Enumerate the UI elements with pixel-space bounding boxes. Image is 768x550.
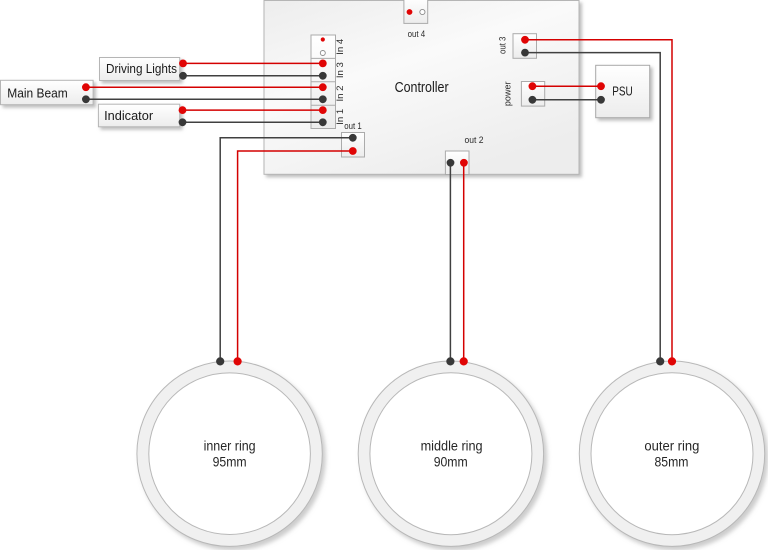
svg-text:85mm: 85mm bbox=[655, 454, 689, 469]
svg-text:90mm: 90mm bbox=[434, 454, 468, 469]
svg-text:In 1: In 1 bbox=[335, 109, 345, 125]
svg-text:Controller: Controller bbox=[395, 79, 449, 96]
svg-text:In 3: In 3 bbox=[335, 62, 345, 78]
svg-text:power: power bbox=[503, 82, 514, 107]
svg-text:outer ring: outer ring bbox=[644, 438, 699, 453]
svg-text:In 4: In 4 bbox=[335, 39, 345, 55]
svg-text:inner ring: inner ring bbox=[204, 438, 256, 453]
svg-text:Main Beam: Main Beam bbox=[7, 85, 68, 100]
svg-text:Indicator: Indicator bbox=[104, 108, 154, 123]
svg-text:out 3: out 3 bbox=[497, 37, 508, 55]
svg-text:out 4: out 4 bbox=[408, 29, 426, 40]
svg-text:95mm: 95mm bbox=[213, 454, 247, 469]
svg-text:out 2: out 2 bbox=[465, 135, 484, 146]
svg-text:Driving Lights: Driving Lights bbox=[106, 61, 177, 76]
svg-text:In 2: In 2 bbox=[335, 86, 345, 102]
svg-text:PSU: PSU bbox=[612, 85, 633, 99]
svg-text:middle ring: middle ring bbox=[421, 438, 483, 453]
svg-text:out 1: out 1 bbox=[344, 121, 362, 132]
